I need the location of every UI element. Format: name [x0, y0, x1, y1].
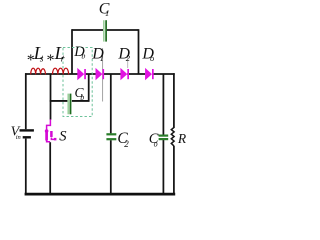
svg-text:S: S: [59, 129, 67, 145]
svg-text:o: o: [154, 139, 158, 148]
svg-text:in: in: [16, 134, 21, 141]
svg-text:r: r: [61, 55, 65, 65]
svg-text:*: *: [26, 52, 34, 69]
svg-text:*: *: [46, 52, 54, 69]
svg-text:1: 1: [100, 53, 104, 63]
svg-text:s: s: [40, 55, 44, 65]
svg-text:b: b: [80, 93, 84, 102]
svg-text:R: R: [177, 131, 187, 146]
svg-text:1: 1: [105, 8, 109, 18]
svg-text:2: 2: [126, 53, 131, 63]
svg-text:2: 2: [124, 139, 129, 149]
svg-text:b: b: [81, 52, 85, 61]
svg-text:o: o: [150, 53, 154, 63]
